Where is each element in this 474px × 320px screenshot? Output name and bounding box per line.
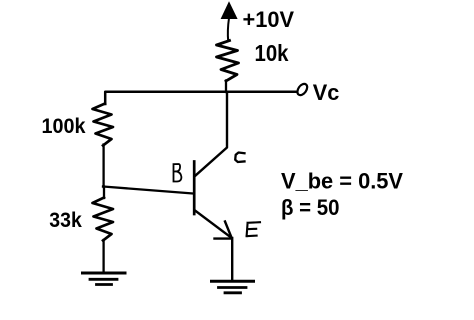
- svg-text:10k: 10k: [255, 40, 289, 66]
- svg-text:100k: 100k: [42, 115, 86, 138]
- svg-text:Vc: Vc: [313, 80, 340, 105]
- svg-text:V_be = 0.5V: V_be = 0.5V: [281, 169, 403, 194]
- svg-text:33k: 33k: [49, 208, 82, 232]
- svg-text:+10V: +10V: [243, 7, 295, 32]
- svg-text:β = 50: β = 50: [281, 195, 340, 220]
